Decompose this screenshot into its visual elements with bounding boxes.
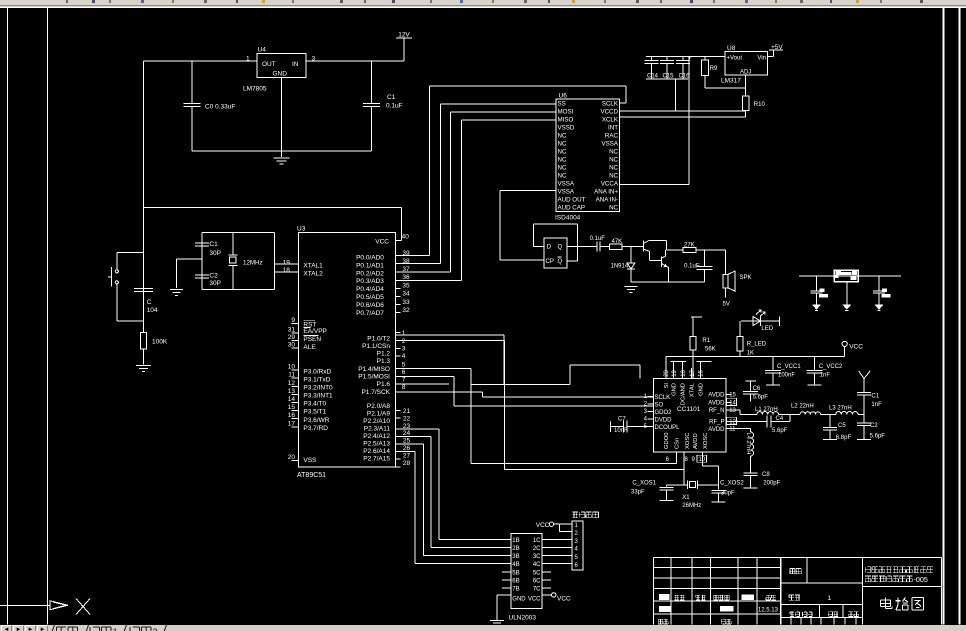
svg-text:P0.5/AD5: P0.5/AD5 <box>356 294 384 301</box>
svg-text:2: 2 <box>644 402 648 408</box>
svg-text:CP: CP <box>546 259 554 265</box>
svg-text:1nF: 1nF <box>820 373 831 379</box>
svg-text:P3.6/WR: P3.6/WR <box>303 417 329 424</box>
svg-text:P2.4/A12: P2.4/A12 <box>363 433 390 440</box>
svg-text:PSEN: PSEN <box>303 336 321 343</box>
svg-text:P3.1/TxD: P3.1/TxD <box>303 376 330 383</box>
svg-text:P1.5/MOSI: P1.5/MOSI <box>358 374 390 381</box>
svg-text:2B: 2B <box>512 546 519 552</box>
svg-text:GND: GND <box>698 383 704 396</box>
svg-text:SO: SO <box>655 403 664 409</box>
svg-text:1nF: 1nF <box>871 402 882 408</box>
svg-text:+Vout: +Vout <box>727 55 743 61</box>
svg-text:11: 11 <box>729 427 736 433</box>
svg-text:5.6pF: 5.6pF <box>772 428 788 434</box>
svg-text:31: 31 <box>288 326 296 333</box>
svg-text:P0.2/AD2: P0.2/AD2 <box>356 270 384 277</box>
svg-text:16: 16 <box>288 412 296 419</box>
svg-text:MOSI: MOSI <box>558 109 574 116</box>
svg-text:NC: NC <box>609 205 618 212</box>
svg-text:SCLK: SCLK <box>602 101 619 108</box>
svg-text:VCC: VCC <box>557 595 571 602</box>
svg-text:VCC: VCC <box>375 238 389 245</box>
svg-text:SPK: SPK <box>740 275 752 281</box>
svg-text:NC: NC <box>558 157 567 164</box>
svg-text:15: 15 <box>288 404 296 411</box>
svg-text:CSn: CSn <box>674 438 680 449</box>
svg-text:12.5.13: 12.5.13 <box>758 608 779 614</box>
svg-text:26MHz: 26MHz <box>682 503 701 509</box>
svg-text:AVDD: AVDD <box>708 393 725 399</box>
svg-text:AVDD: AVDD <box>708 427 725 433</box>
svg-text:NC: NC <box>609 157 618 164</box>
svg-text:LM7805: LM7805 <box>243 86 267 93</box>
svg-text:P1.2: P1.2 <box>377 351 391 358</box>
svg-text:AUD OUT: AUD OUT <box>558 197 586 204</box>
svg-text:33: 33 <box>402 299 410 306</box>
svg-text:11: 11 <box>288 372 295 379</box>
svg-text:NC: NC <box>558 141 567 148</box>
svg-text:LM317: LM317 <box>721 78 741 85</box>
svg-text:1: 1 <box>575 523 579 529</box>
svg-text:6: 6 <box>575 563 579 569</box>
svg-text:C2: C2 <box>870 423 878 429</box>
svg-text:XCLK: XCLK <box>602 117 619 124</box>
svg-text:AUD CAP: AUD CAP <box>558 205 586 212</box>
svg-text:NC: NC <box>558 149 567 156</box>
svg-text:ISD4004: ISD4004 <box>555 215 581 222</box>
svg-text:22: 22 <box>403 415 411 422</box>
svg-text:4C: 4C <box>533 562 541 568</box>
svg-text:7C: 7C <box>533 587 541 593</box>
svg-text:NC: NC <box>558 133 567 140</box>
svg-text:XTAL: XTAL <box>690 382 696 397</box>
svg-text:29: 29 <box>288 334 296 341</box>
svg-text:2: 2 <box>575 531 579 537</box>
svg-text:XOSC: XOSC <box>703 433 709 449</box>
svg-text:-005: -005 <box>913 575 928 584</box>
svg-text:NC: NC <box>558 173 567 180</box>
svg-text:IN: IN <box>292 61 299 68</box>
svg-text:ANA IN-: ANA IN- <box>596 197 618 204</box>
svg-text:36: 36 <box>402 274 410 281</box>
svg-text:DVDD: DVDD <box>655 418 673 424</box>
svg-text:RF_N: RF_N <box>709 408 725 414</box>
svg-text:2C: 2C <box>533 546 541 552</box>
svg-text:NC: NC <box>558 165 567 172</box>
svg-text:13: 13 <box>729 408 736 414</box>
svg-text:10nF: 10nF <box>614 428 628 434</box>
svg-text:2: 2 <box>402 338 406 345</box>
svg-text:19: 19 <box>283 259 291 266</box>
svg-text:C1: C1 <box>209 241 218 248</box>
svg-text:P2.0/A8: P2.0/A8 <box>367 403 391 410</box>
svg-text:2: 2 <box>153 627 158 631</box>
svg-text:VCC: VCC <box>536 522 550 529</box>
svg-text:P2.7/A15: P2.7/A15 <box>363 456 390 463</box>
svg-text:C2: C2 <box>209 273 218 280</box>
svg-text:C_VCC2: C_VCC2 <box>819 364 843 370</box>
svg-text:27: 27 <box>403 452 411 459</box>
svg-text:MISO: MISO <box>558 117 574 124</box>
svg-text:P2.5/A13: P2.5/A13 <box>363 441 390 448</box>
svg-text:P0.4/AD4: P0.4/AD4 <box>356 286 384 293</box>
svg-text:AVDD: AVDD <box>708 401 725 407</box>
svg-text:L3 27nH: L3 27nH <box>829 405 852 411</box>
svg-text:32: 32 <box>402 307 410 314</box>
svg-text:7: 7 <box>402 377 406 384</box>
svg-text:1: 1 <box>113 627 118 631</box>
svg-text:40: 40 <box>402 234 410 241</box>
svg-text:VCC: VCC <box>849 344 863 351</box>
svg-text:5: 5 <box>575 555 579 561</box>
svg-text:6: 6 <box>402 369 406 376</box>
svg-text:C: C <box>147 299 152 306</box>
svg-text:P0.1/AD1: P0.1/AD1 <box>356 262 384 269</box>
svg-text:GND: GND <box>512 597 526 603</box>
svg-text:18: 18 <box>681 369 687 376</box>
svg-text:U3: U3 <box>297 226 306 233</box>
svg-text:U6: U6 <box>559 93 568 100</box>
svg-text:104: 104 <box>147 307 158 314</box>
svg-text:NC: NC <box>609 173 618 180</box>
svg-text:P1.1/CSn: P1.1/CSn <box>362 343 390 350</box>
svg-text:DC/AND: DC/AND <box>681 383 687 405</box>
svg-text:P1.3: P1.3 <box>377 358 391 365</box>
svg-text:30: 30 <box>288 342 296 349</box>
svg-text:P2.3/A11: P2.3/A11 <box>364 426 391 433</box>
svg-text:17: 17 <box>690 369 696 376</box>
svg-text:20: 20 <box>664 369 670 376</box>
svg-text:1C: 1C <box>533 538 541 544</box>
svg-text:34: 34 <box>402 291 410 298</box>
svg-text:RF_P: RF_P <box>709 420 724 426</box>
svg-text:14: 14 <box>288 396 296 403</box>
svg-text:P0.6/AD6: P0.6/AD6 <box>356 302 384 309</box>
svg-text:5B: 5B <box>512 570 519 576</box>
svg-text:SS: SS <box>558 101 566 108</box>
svg-text:U4: U4 <box>258 47 267 54</box>
svg-text:L2 22nH: L2 22nH <box>791 403 814 409</box>
svg-text:+: + <box>688 56 692 62</box>
svg-text:C0 0.33uF: C0 0.33uF <box>205 104 235 111</box>
svg-text:6.8pF: 6.8pF <box>836 435 852 441</box>
svg-text:C1: C1 <box>871 394 879 400</box>
svg-text:56K: 56K <box>705 347 716 353</box>
svg-text:6: 6 <box>666 457 670 463</box>
svg-text:1: 1 <box>402 330 406 337</box>
svg-text:P2.2/A10: P2.2/A10 <box>363 418 390 425</box>
svg-text:C6: C6 <box>753 386 761 392</box>
svg-text:VCCD: VCCD <box>600 109 618 116</box>
svg-text:P3.7/RD: P3.7/RD <box>303 425 328 432</box>
svg-text:5: 5 <box>402 362 406 369</box>
svg-text:P3.5/T1: P3.5/T1 <box>303 409 326 416</box>
svg-text:VCCA: VCCA <box>601 181 619 188</box>
svg-text:Vin: Vin <box>757 55 766 61</box>
svg-text:VSSA: VSSA <box>558 189 575 196</box>
svg-text:CC1101: CC1101 <box>677 406 701 413</box>
svg-text:GDO0: GDO0 <box>664 433 670 449</box>
svg-text:200pF: 200pF <box>763 481 780 487</box>
svg-text:4: 4 <box>402 353 406 360</box>
svg-text:P1.6: P1.6 <box>377 381 391 388</box>
svg-text:X1: X1 <box>682 495 690 501</box>
svg-text:R10: R10 <box>754 102 766 108</box>
svg-text:P1.7/SCK: P1.7/SCK <box>361 389 390 396</box>
svg-text:C_VCC1: C_VCC1 <box>777 364 801 370</box>
svg-text:P3.2/INT0: P3.2/INT0 <box>303 384 333 391</box>
svg-text:7B: 7B <box>512 587 519 593</box>
svg-text:VCC: VCC <box>528 597 541 603</box>
svg-text:VSS: VSS <box>303 457 317 464</box>
svg-text:VSSA: VSSA <box>601 141 618 148</box>
svg-text:3: 3 <box>644 409 648 415</box>
svg-text:47K: 47K <box>612 239 623 245</box>
svg-text:3: 3 <box>402 346 406 353</box>
svg-text:P3.3/INT1: P3.3/INT1 <box>303 393 333 400</box>
svg-text:6C: 6C <box>533 578 541 584</box>
svg-text:ADJ: ADJ <box>740 70 751 76</box>
svg-text:0.1uF: 0.1uF <box>684 263 700 269</box>
svg-text:L1 27nH: L1 27nH <box>755 407 778 413</box>
svg-text:NC: NC <box>609 149 618 156</box>
svg-text:4: 4 <box>575 547 579 553</box>
svg-text:12V: 12V <box>398 32 410 39</box>
svg-text:GND: GND <box>273 71 288 78</box>
svg-text:5C: 5C <box>533 570 541 576</box>
svg-text:P2.6/A14: P2.6/A14 <box>363 448 390 455</box>
svg-text:C4: C4 <box>776 416 784 422</box>
svg-text:P1.4/MISO: P1.4/MISO <box>358 366 390 373</box>
svg-text:XTAL1: XTAL1 <box>303 262 323 269</box>
svg-text:12MHz: 12MHz <box>243 260 263 267</box>
svg-text:R_LED: R_LED <box>747 342 767 348</box>
svg-text:AT89C51: AT89C51 <box>297 472 326 479</box>
svg-text:U8: U8 <box>727 45 736 52</box>
svg-text:9: 9 <box>291 317 295 324</box>
svg-text:35: 35 <box>402 282 410 289</box>
svg-text:P0.7/AD7: P0.7/AD7 <box>356 310 384 317</box>
svg-text:1K: 1K <box>747 350 754 356</box>
svg-text:Q: Q <box>558 245 563 251</box>
svg-text:ULN2003: ULN2003 <box>509 615 537 622</box>
svg-text:LED: LED <box>761 326 773 332</box>
svg-text:D: D <box>547 245 552 251</box>
svg-text:13: 13 <box>288 388 296 395</box>
svg-text:SI: SI <box>664 383 670 389</box>
svg-text:3: 3 <box>575 539 579 545</box>
svg-text:0.1uF: 0.1uF <box>386 103 403 110</box>
svg-text:20: 20 <box>288 454 296 461</box>
svg-text:ALE: ALE <box>303 344 316 351</box>
svg-text:C5: C5 <box>838 423 846 429</box>
svg-text:XOSC: XOSC <box>685 433 691 449</box>
svg-text:Q: Q <box>558 259 563 265</box>
svg-text:16: 16 <box>699 369 705 376</box>
svg-text:30pF: 30pF <box>721 491 735 497</box>
svg-text:4B: 4B <box>512 562 519 568</box>
svg-text:VSSA: VSSA <box>558 181 575 188</box>
svg-text:15: 15 <box>729 393 736 399</box>
svg-text:GND: GND <box>672 383 678 396</box>
svg-text:5.6pF: 5.6pF <box>753 395 769 401</box>
svg-text:1N914: 1N914 <box>611 264 629 270</box>
svg-text:30P: 30P <box>209 250 221 257</box>
svg-text:C_XOS2: C_XOS2 <box>720 481 744 487</box>
svg-text:SCLK: SCLK <box>655 395 671 401</box>
svg-text:8: 8 <box>685 457 689 463</box>
svg-text:R1: R1 <box>702 338 710 344</box>
svg-text:4: 4 <box>644 417 648 423</box>
svg-text:GDO2: GDO2 <box>655 410 673 416</box>
svg-text:L4 27nH: L4 27nH <box>745 433 751 455</box>
svg-text:17: 17 <box>288 420 296 427</box>
svg-text:OUT: OUT <box>262 61 276 68</box>
svg-text:33pF: 33pF <box>631 490 645 496</box>
svg-text:P0.0/AD0: P0.0/AD0 <box>356 255 384 262</box>
svg-text:3C: 3C <box>533 554 541 560</box>
svg-text:18: 18 <box>283 267 291 274</box>
svg-text:100nF: 100nF <box>778 373 795 379</box>
svg-text:21: 21 <box>403 408 411 415</box>
svg-text:100K: 100K <box>152 339 168 346</box>
svg-text:NC: NC <box>609 165 618 172</box>
svg-text:1: 1 <box>828 595 832 602</box>
svg-text:ANA IN+: ANA IN+ <box>594 189 618 196</box>
svg-text:P3.0/RxD: P3.0/RxD <box>303 368 331 375</box>
svg-text:26: 26 <box>403 445 411 452</box>
svg-text:30P: 30P <box>209 280 221 287</box>
svg-text:C1: C1 <box>387 94 396 101</box>
svg-text:R9: R9 <box>710 66 718 72</box>
svg-text:AVDD: AVDD <box>693 433 699 449</box>
svg-text:C7: C7 <box>618 417 626 423</box>
svg-text:8: 8 <box>402 384 406 391</box>
svg-text:INT: INT <box>608 125 618 132</box>
svg-text:6B: 6B <box>512 578 519 584</box>
svg-text:12: 12 <box>288 380 296 387</box>
svg-text:10: 10 <box>288 364 296 371</box>
svg-text:27K: 27K <box>684 242 695 248</box>
svg-text:C_XOS1: C_XOS1 <box>632 481 656 487</box>
svg-text:5V: 5V <box>723 302 730 308</box>
svg-text:19: 19 <box>672 369 678 376</box>
svg-text:P1.0/T2: P1.0/T2 <box>367 335 390 342</box>
svg-text:EA/VPP: EA/VPP <box>303 328 326 335</box>
svg-text:3B: 3B <box>512 554 519 560</box>
svg-text:28: 28 <box>403 460 411 467</box>
svg-text:P2.1/A9: P2.1/A9 <box>367 411 391 418</box>
svg-text:5.6pF: 5.6pF <box>870 434 886 440</box>
svg-text:XTAL2: XTAL2 <box>303 271 323 278</box>
svg-text:1B: 1B <box>512 538 519 544</box>
svg-text:9: 9 <box>692 457 696 463</box>
svg-text:C8: C8 <box>762 472 770 478</box>
svg-text:P3.4/T0: P3.4/T0 <box>303 401 326 408</box>
svg-text:DCOUPL: DCOUPL <box>655 425 681 431</box>
svg-text:P0.3/AD3: P0.3/AD3 <box>356 278 384 285</box>
svg-text:RAC: RAC <box>605 133 619 140</box>
svg-text:0.1uF: 0.1uF <box>590 236 606 242</box>
svg-text:VSSD: VSSD <box>558 125 575 132</box>
